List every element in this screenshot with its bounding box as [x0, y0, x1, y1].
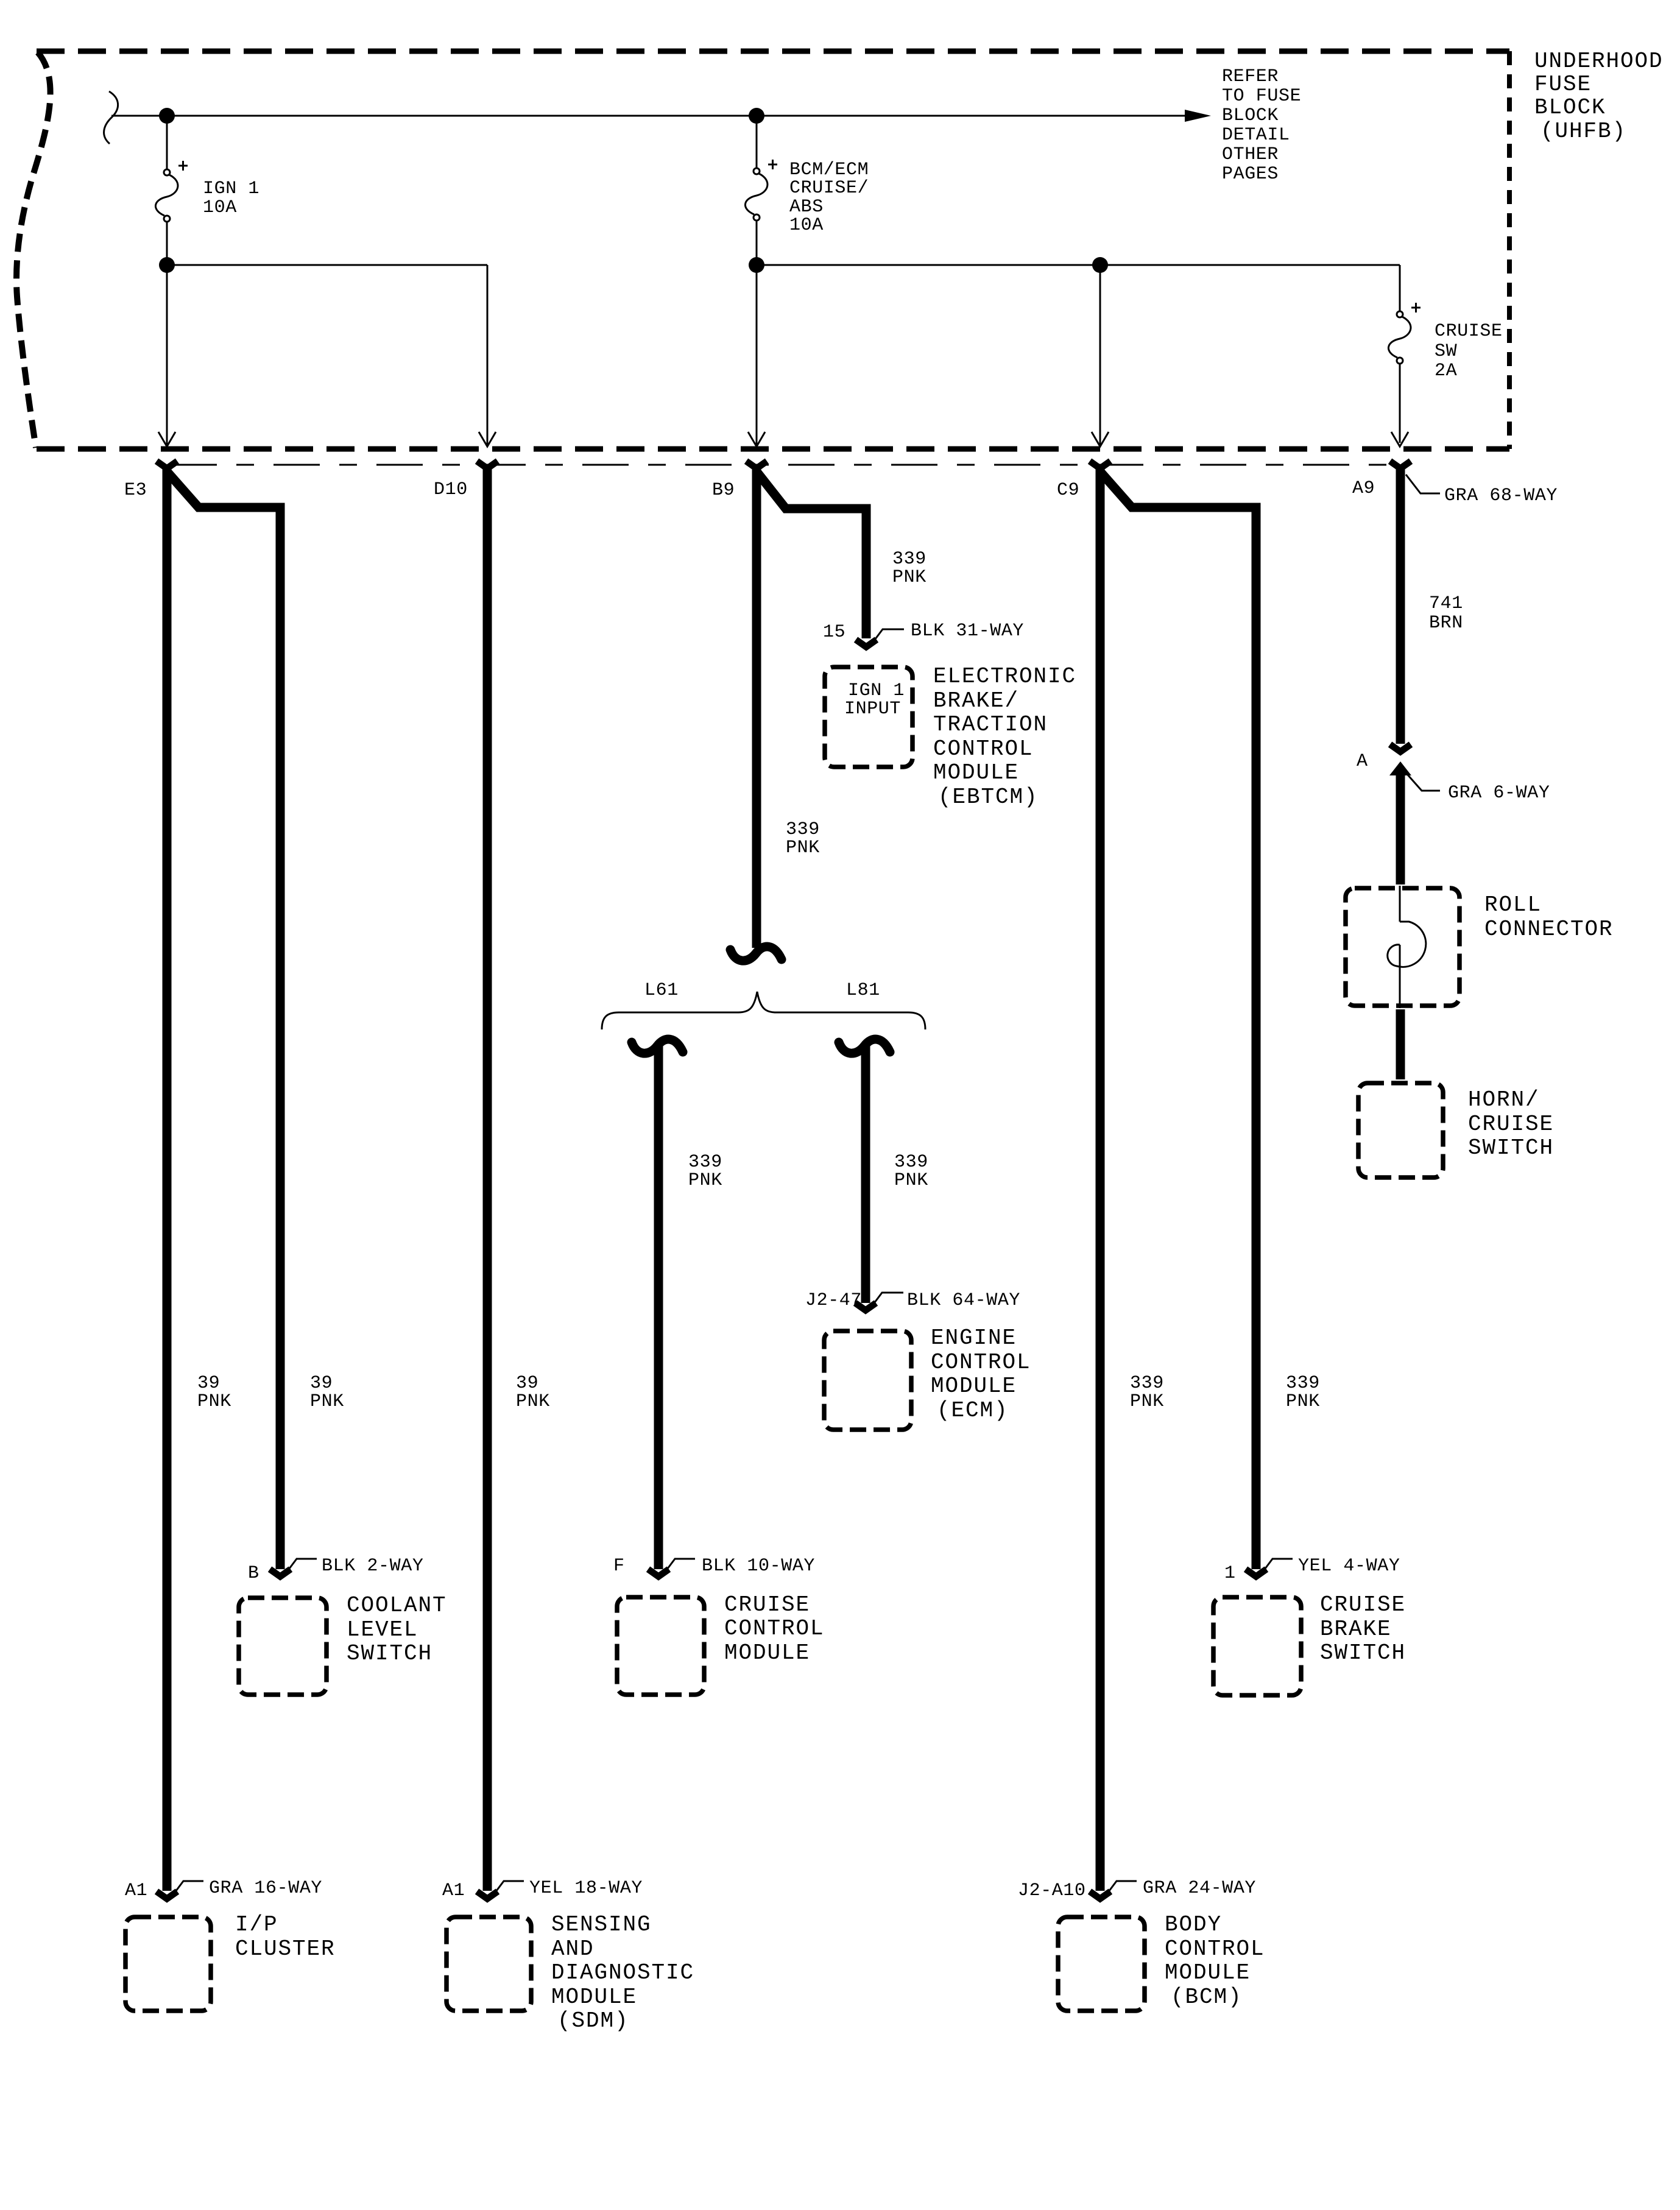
- leader YEL 4-WAY: [1262, 1559, 1293, 1573]
- svg-text:10A: 10A: [203, 197, 237, 218]
- svg-text:2A: 2A: [1435, 361, 1457, 381]
- connector pin B coolant level switch: [270, 1569, 291, 1576]
- leader BLK 2-WAY: [286, 1559, 317, 1573]
- leader BLK 64-WAY: [871, 1293, 903, 1307]
- splice hook L81: [839, 1039, 890, 1053]
- connector pin A9: [1390, 461, 1411, 468]
- svg-text:741: 741: [1429, 593, 1463, 614]
- svg-text:1: 1: [1224, 1563, 1236, 1584]
- svg-text:BCM/ECM: BCM/ECM: [789, 160, 869, 180]
- svg-text:GRA 16-WAY: GRA 16-WAY: [209, 1878, 322, 1899]
- svg-text:CONTROL: CONTROL: [931, 1350, 1031, 1375]
- svg-text:ABS: ABS: [789, 197, 824, 217]
- svg-text:BLK 10-WAY: BLK 10-WAY: [702, 1556, 815, 1576]
- underhood fuse block dashed border bottom: [37, 447, 1509, 452]
- second bus wire left segment: [167, 264, 487, 266]
- fuse IGN 1 10A: [155, 116, 259, 261]
- svg-text:BRAKE/: BRAKE/: [933, 688, 1019, 713]
- svg-text:BLOCK: BLOCK: [1534, 95, 1606, 120]
- splice hook L61: [632, 1039, 683, 1053]
- svg-text:CRUISE: CRUISE: [724, 1592, 810, 1617]
- svg-text:OTHER: OTHER: [1222, 144, 1279, 165]
- connector pin J2-47 at ECM: [855, 1303, 876, 1310]
- connector pin 15 at EBTCM: [856, 640, 877, 647]
- horn/cruise switch box: [1358, 1083, 1443, 1177]
- svg-text:CRUISE: CRUISE: [1435, 321, 1503, 342]
- svg-text:(EBTCM): (EBTCM): [938, 785, 1039, 810]
- svg-text:GRA 24-WAY: GRA 24-WAY: [1143, 1878, 1256, 1899]
- connector pin F cruise control module: [648, 1569, 669, 1576]
- svg-text:E3: E3: [124, 480, 147, 501]
- SDM box: [446, 1917, 531, 2011]
- leader BLK 10-WAY: [664, 1559, 695, 1573]
- svg-text:PNK: PNK: [688, 1170, 722, 1191]
- svg-text:BRAKE: BRAKE: [1320, 1617, 1392, 1642]
- module box EBTCM: [825, 667, 912, 767]
- connector pin 1 cruise brake switch: [1246, 1569, 1266, 1576]
- svg-text:339: 339: [892, 549, 926, 570]
- connector pin E3: [157, 461, 177, 468]
- leader BLK 31-WAY: [872, 629, 904, 644]
- svg-text:339: 339: [1286, 1373, 1320, 1394]
- svg-text:BLOCK: BLOCK: [1222, 105, 1279, 126]
- svg-text:PNK: PNK: [516, 1391, 550, 1412]
- wire L81 to ECM: [861, 1044, 870, 1303]
- leader GRA 68-WAY: [1406, 475, 1440, 493]
- svg-text:SWITCH: SWITCH: [1468, 1135, 1554, 1160]
- roll connector box: [1346, 888, 1459, 1006]
- I/P cluster box: [125, 1917, 211, 2011]
- junction node at IGN1 fuse: [159, 108, 175, 124]
- top feed wire: [111, 115, 1186, 117]
- junction node BCM fuse output: [749, 257, 764, 273]
- BCM box: [1058, 1917, 1145, 2011]
- wire C9 drop inside block: [1099, 265, 1101, 445]
- junction node C9 tap: [1092, 257, 1108, 273]
- svg-text:BLK 2-WAY: BLK 2-WAY: [322, 1556, 423, 1576]
- junction node at BCM fuse: [749, 108, 764, 124]
- svg-text:339: 339: [894, 1152, 928, 1173]
- connector pin A1 I/P cluster: [157, 1891, 177, 1899]
- svg-text:REFER: REFER: [1222, 66, 1279, 87]
- svg-text:ROLL: ROLL: [1484, 892, 1542, 917]
- svg-text:GRA 6-WAY: GRA 6-WAY: [1448, 783, 1550, 803]
- svg-text:339: 339: [786, 819, 820, 840]
- leader GRA 6-WAY: [1408, 775, 1440, 791]
- svg-text:(ECM): (ECM): [937, 1398, 1009, 1423]
- svg-text:CRUISE: CRUISE: [1320, 1592, 1406, 1617]
- svg-text:CRUISE/: CRUISE/: [789, 178, 869, 199]
- svg-text:PNK: PNK: [894, 1170, 928, 1191]
- junction node E3 fuse output: [159, 257, 175, 273]
- svg-text:15: 15: [823, 622, 845, 643]
- roll connector coil: [1399, 886, 1401, 922]
- svg-text:CONTROL: CONTROL: [1165, 1936, 1265, 1961]
- svg-text:TRACTION: TRACTION: [933, 712, 1048, 737]
- svg-text:L81: L81: [846, 980, 880, 1001]
- connector plane dash-dot line: [171, 464, 1395, 466]
- cruise control module box: [617, 1597, 704, 1695]
- wire A9 trunk: [1396, 468, 1405, 744]
- svg-text:UNDERHOOD: UNDERHOOD: [1534, 49, 1664, 74]
- svg-text:MODULE: MODULE: [933, 760, 1019, 785]
- svg-text:10A: 10A: [789, 215, 824, 236]
- svg-text:39: 39: [197, 1373, 220, 1394]
- svg-text:FUSE: FUSE: [1534, 72, 1592, 97]
- svg-text:PNK: PNK: [1130, 1391, 1164, 1412]
- arrow to fuse block detail: [1185, 110, 1211, 122]
- svg-text:A1: A1: [125, 1880, 147, 1901]
- svg-text:DETAIL: DETAIL: [1222, 125, 1290, 146]
- svg-text:A9: A9: [1352, 478, 1375, 499]
- svg-text:AND: AND: [551, 1936, 595, 1961]
- svg-text:(SDM): (SDM): [557, 2008, 629, 2033]
- svg-text:C9: C9: [1057, 480, 1079, 501]
- connector half A lower arrow: [1389, 761, 1411, 775]
- coolant level switch box: [239, 1598, 326, 1695]
- wire B9 branch to EBTCM: [757, 471, 866, 638]
- connector pin C9: [1090, 461, 1110, 468]
- svg-text:YEL 4-WAY: YEL 4-WAY: [1298, 1556, 1400, 1576]
- svg-text:COOLANT: COOLANT: [347, 1593, 447, 1618]
- svg-text:I/P: I/P: [235, 1912, 278, 1937]
- svg-text:(BCM): (BCM): [1171, 1985, 1243, 2010]
- fuse BCM/ECM CRUISE/ABS 10A: [745, 116, 869, 261]
- connector half A upper: [1390, 744, 1411, 752]
- connector pin J2-A10 BCM: [1090, 1891, 1110, 1899]
- svg-text:INPUT: INPUT: [844, 699, 901, 719]
- wire roll connector to horn/cruise switch: [1396, 1009, 1405, 1079]
- svg-text:J2-A10: J2-A10: [1018, 1880, 1086, 1901]
- svg-text:DIAGNOSTIC: DIAGNOSTIC: [551, 1960, 694, 1985]
- fuse CRUISE SW 2A: [1388, 265, 1502, 443]
- svg-text:D10: D10: [434, 479, 468, 500]
- svg-text:MODULE: MODULE: [724, 1640, 810, 1665]
- svg-text:CLUSTER: CLUSTER: [235, 1936, 336, 1961]
- leader GRA 24-WAY: [1106, 1881, 1137, 1896]
- svg-text:SWITCH: SWITCH: [347, 1641, 432, 1666]
- wire break squiggle at feed start: [104, 91, 118, 144]
- wire D10 trunk: [483, 468, 492, 1891]
- svg-text:PNK: PNK: [310, 1391, 344, 1412]
- svg-text:PNK: PNK: [197, 1391, 231, 1412]
- svg-text:339: 339: [1130, 1373, 1164, 1394]
- svg-text:SWITCH: SWITCH: [1320, 1640, 1406, 1665]
- leader YEL 18-WAY: [493, 1881, 524, 1896]
- svg-text:YEL 18-WAY: YEL 18-WAY: [529, 1878, 643, 1899]
- svg-text:BLK 64-WAY: BLK 64-WAY: [907, 1290, 1020, 1311]
- svg-text:MODULE: MODULE: [551, 1985, 637, 2010]
- wire C9 branch to cruise brake switch: [1100, 471, 1256, 1569]
- underhood fuse block dashed border right: [1507, 51, 1512, 449]
- svg-text:MODULE: MODULE: [1165, 1960, 1251, 1985]
- cruise brake switch box: [1213, 1597, 1301, 1695]
- wire B9 main trunk to splice: [752, 468, 761, 948]
- svg-text:CONNECTOR: CONNECTOR: [1484, 917, 1614, 942]
- svg-text:B: B: [248, 1563, 259, 1584]
- svg-text:CRUISE: CRUISE: [1468, 1112, 1554, 1137]
- wire L61 to cruise control module: [654, 1044, 663, 1569]
- svg-text:PNK: PNK: [892, 567, 926, 588]
- svg-text:PAGES: PAGES: [1222, 164, 1279, 185]
- svg-text:LEVEL: LEVEL: [347, 1617, 418, 1642]
- svg-text:ENGINE: ENGINE: [931, 1326, 1017, 1350]
- brace L61 L81: [602, 992, 925, 1029]
- wire E3 drop inside block: [166, 265, 168, 445]
- svg-text:39: 39: [310, 1373, 333, 1394]
- svg-text:L61: L61: [644, 980, 679, 1001]
- svg-text:IGN 1: IGN 1: [203, 178, 259, 199]
- svg-text:BODY: BODY: [1165, 1912, 1222, 1937]
- svg-text:MODULE: MODULE: [931, 1374, 1017, 1399]
- leader GRA 16-WAY: [172, 1881, 203, 1896]
- svg-text:A: A: [1357, 751, 1368, 772]
- wire E3 branch to coolant level switch: [167, 471, 280, 1569]
- second bus wire right segment: [757, 264, 1400, 266]
- wire B9 drop inside block: [756, 265, 758, 445]
- svg-text:BLK 31-WAY: BLK 31-WAY: [911, 621, 1024, 641]
- splice hook from B9: [730, 947, 782, 961]
- svg-text:PNK: PNK: [1286, 1391, 1320, 1412]
- module box ECM: [824, 1331, 911, 1430]
- svg-text:SENSING: SENSING: [551, 1912, 652, 1937]
- underhood fuse block dashed border left wavy: [16, 52, 51, 448]
- svg-text:F: F: [613, 1556, 625, 1576]
- svg-text:HORN/: HORN/: [1468, 1087, 1540, 1112]
- connector pin A1 SDM: [477, 1891, 498, 1899]
- connector pin B9: [746, 461, 767, 468]
- svg-text:A1: A1: [442, 1880, 465, 1901]
- svg-text:339: 339: [688, 1152, 722, 1173]
- wire D10 drop inside block: [487, 265, 489, 445]
- wire C9 main trunk: [1096, 468, 1105, 1891]
- svg-text:39: 39: [516, 1373, 538, 1394]
- svg-text:(UHFB): (UHFB): [1541, 119, 1626, 144]
- svg-text:IGN 1: IGN 1: [848, 680, 905, 701]
- svg-text:B9: B9: [712, 480, 735, 501]
- underhood fuse block dashed border top: [37, 49, 1509, 54]
- svg-text:SW: SW: [1435, 341, 1457, 362]
- connector pin D10: [477, 461, 498, 468]
- svg-text:BRN: BRN: [1429, 613, 1463, 634]
- svg-text:J2-47: J2-47: [805, 1290, 862, 1311]
- svg-text:GRA 68-WAY: GRA 68-WAY: [1444, 485, 1558, 506]
- svg-text:TO FUSE: TO FUSE: [1222, 86, 1301, 107]
- svg-text:CONTROL: CONTROL: [933, 736, 1034, 761]
- svg-text:ELECTRONIC: ELECTRONIC: [933, 664, 1076, 689]
- wire A9 drop arrowhead: [1391, 432, 1408, 447]
- svg-text:CONTROL: CONTROL: [724, 1616, 825, 1641]
- svg-text:PNK: PNK: [786, 838, 820, 858]
- wire E3 main trunk: [163, 468, 172, 1891]
